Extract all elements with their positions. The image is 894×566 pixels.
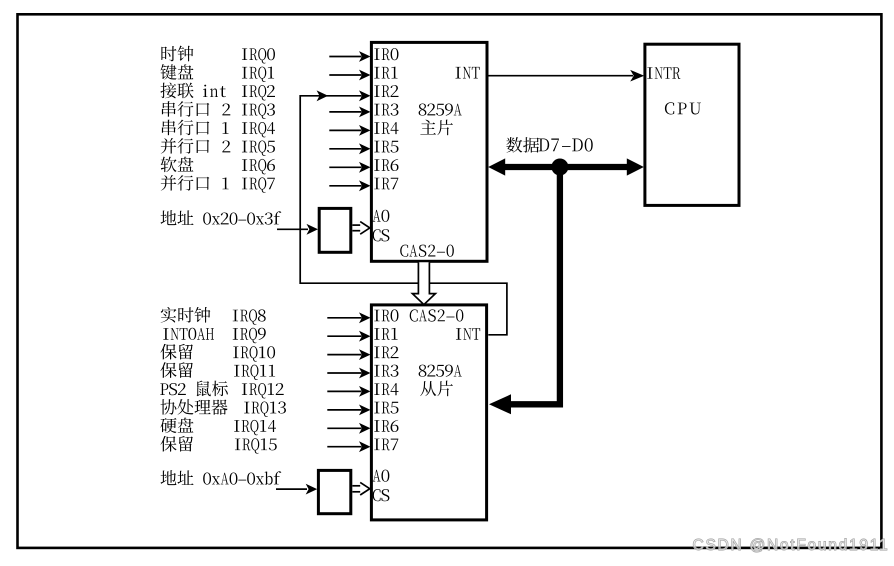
label row IRQ0 (161, 46, 176, 61)
wire IRQ8 input arrow (327, 317, 361, 319)
chip U1 8259A master box (371, 42, 487, 261)
arrowhead IR0 slave (359, 312, 371, 323)
wire group: IRQ inputs to slave (327, 318, 361, 447)
label row IRQ1 (161, 64, 177, 80)
arrowhead IR2 master (359, 90, 371, 101)
bus data vertical drop to slave (511, 168, 560, 404)
arrowhead IR5 master (359, 143, 371, 154)
arrowhead data bus into master (488, 158, 505, 175)
label row IRQ2 (160, 83, 176, 99)
arrowhead IR2 slave (359, 349, 371, 360)
label row IRQ3 (162, 101, 176, 117)
decoder box master A0/CS (319, 208, 351, 252)
label row IRQ14 (160, 418, 176, 433)
pin label IR3 master (374, 104, 379, 116)
pin label IR0 master (374, 48, 379, 60)
wire IRQ9 input arrow (327, 335, 361, 337)
wire IRQ13 input arrow (327, 409, 361, 411)
label slave (congpian) (420, 381, 436, 396)
pin labels master chip (373, 48, 480, 257)
wire IRQ7 input arrow (329, 185, 361, 187)
label address 0x20-0x3f (161, 210, 282, 225)
labels: slave IRQ sources (160, 307, 286, 454)
arrowhead IR0 master (359, 51, 371, 62)
arrowhead data bus into slave (489, 394, 511, 414)
label 8259A slave (419, 365, 427, 377)
label row IRQ6 (161, 157, 177, 173)
decoder box slave A0/CS (318, 470, 350, 513)
arrowhead IR6 master (359, 162, 371, 173)
pin label IR7 slave (374, 439, 379, 451)
wire IRQ1 input arrow (329, 74, 361, 76)
wire IRQ14 input arrow (327, 427, 361, 429)
wire IRQ4 input arrow (329, 129, 361, 131)
arrowhead IR3 slave (359, 368, 371, 379)
label row IRQ13 (161, 399, 177, 415)
pin label IR3 slave (374, 365, 379, 377)
pin label IR7 master (374, 178, 379, 190)
label row IRQ15 (160, 436, 176, 452)
pin label IR4 master (374, 122, 379, 134)
pin label IR6 master (374, 159, 379, 171)
wire IRQ5 input arrow (329, 148, 361, 150)
label 8259A master (419, 104, 427, 116)
pin label INTR and CPU (647, 67, 701, 114)
pin label CAS2-0 slave (410, 309, 418, 321)
pin label A0 slave (373, 470, 381, 482)
wire IRQ10 input arrow (327, 354, 361, 356)
label row IRQ5 (161, 138, 177, 154)
wire IRQ11 input arrow (327, 372, 361, 374)
wire slave INT to master IR2 (cascade interrupt) (300, 96, 507, 335)
label row IRQ8 (161, 307, 177, 323)
label row IRQ4 (162, 120, 176, 136)
label master (zhupian) (420, 120, 436, 135)
pin label IR2 master (374, 85, 379, 97)
pin label INT slave (456, 328, 461, 340)
bus CAS2-0 master to slave (hollow arrow) (412, 262, 435, 304)
label CPU (665, 102, 674, 114)
label row IRQ11 (160, 362, 176, 378)
arrowhead IR7 master (359, 180, 371, 191)
bus data D7-D0 master-CPU horizontal (497, 164, 634, 170)
label address 0xA0-0xbf (161, 470, 282, 485)
wire group: IRQ inputs to master (329, 57, 361, 186)
CPU box (645, 44, 739, 205)
arrowhead IR5 slave (359, 405, 371, 416)
bus lines decoder to slave A0 CS (352, 485, 361, 487)
pin label CAS2-0 master (400, 245, 408, 257)
bus lines decoder to master A0 CS (352, 224, 361, 226)
pin label IR5 slave (374, 402, 379, 414)
wire master INT to CPU INTR (488, 75, 633, 77)
open arrowhead into master A0/CS (360, 222, 370, 235)
wire address bus to slave decoder (276, 488, 307, 490)
arrowhead IR6 slave (359, 423, 371, 434)
pin label IR1 slave (374, 328, 379, 340)
arrowhead IR4 slave (359, 386, 371, 397)
label row IRQ7 (161, 175, 177, 191)
labels: master IRQ sources (160, 46, 275, 193)
arrowhead mid IR2 wire (317, 90, 329, 101)
wire address bus to master decoder (277, 228, 308, 230)
wire IRQ0 input arrow (329, 56, 361, 58)
label row IRQ9 (163, 328, 168, 340)
chip U2 8259A slave box (371, 305, 486, 520)
arrowhead IR4 master (359, 125, 371, 136)
open arrowhead into slave A0/CS (360, 482, 370, 495)
pin label IR1 master (374, 67, 379, 79)
arrowhead IR1 master (359, 70, 371, 81)
pin label IR0 slave (374, 310, 379, 322)
junction node data bus (551, 159, 568, 176)
label row IRQ10 (160, 344, 176, 360)
pin label INTR (647, 67, 652, 79)
pin labels slave chip (373, 309, 481, 501)
wire IRQ6 input arrow (329, 166, 361, 168)
wire IRQ12 input arrow (327, 390, 361, 392)
label data bus D7-D0 (506, 137, 592, 153)
wire IRQ15 input arrow (327, 446, 361, 448)
arrowhead IR7 slave (359, 441, 371, 452)
arrowhead data bus into CPU (627, 158, 644, 175)
label row IRQ12 (160, 383, 168, 395)
svg-text:CSDN @NotFound1911: CSDN @NotFound1911 (693, 537, 890, 554)
pin label CS slave (373, 489, 381, 501)
pin label IR6 slave (374, 420, 379, 432)
pin label INT master (455, 67, 460, 79)
wire IRQ3 input arrow (329, 111, 361, 113)
pin label IR2 slave (374, 347, 379, 359)
pin label A0 master (373, 210, 381, 222)
pin label CS master (373, 229, 381, 241)
pin label IR5 master (374, 141, 379, 153)
arrowhead IR3 master (359, 107, 371, 118)
pin label IR4 slave (374, 383, 379, 395)
arrowhead IR1 slave (359, 331, 371, 342)
